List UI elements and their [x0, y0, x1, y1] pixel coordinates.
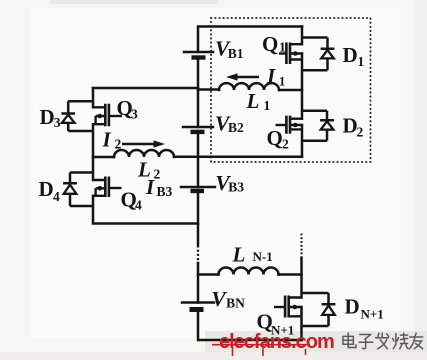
svg-text:I: I: [102, 128, 112, 152]
svg-text:B2: B2: [228, 120, 244, 135]
svg-text:B1: B1: [228, 46, 244, 61]
svg-text:3: 3: [131, 107, 138, 122]
svg-text:2: 2: [154, 167, 161, 182]
svg-text:Q: Q: [262, 32, 278, 56]
svg-text:2: 2: [115, 137, 122, 152]
svg-text:V: V: [211, 287, 227, 311]
svg-text:N-1: N-1: [253, 249, 273, 264]
svg-text:1: 1: [279, 40, 286, 55]
svg-text:L: L: [232, 243, 246, 267]
svg-text:I: I: [145, 175, 155, 199]
svg-text:4: 4: [135, 198, 142, 213]
svg-text:L: L: [246, 89, 260, 113]
svg-text:B3: B3: [228, 180, 244, 195]
svg-text:1: 1: [264, 98, 271, 113]
svg-text:2: 2: [357, 125, 364, 140]
svg-text:1: 1: [279, 75, 285, 89]
svg-text:D: D: [39, 177, 54, 201]
svg-text:N+1: N+1: [361, 307, 384, 322]
svg-text:D: D: [343, 43, 358, 67]
svg-text:I: I: [266, 64, 276, 88]
svg-text:1: 1: [358, 54, 365, 69]
svg-text:Q: Q: [267, 126, 283, 150]
svg-text:BN: BN: [226, 296, 245, 311]
svg-text:D: D: [343, 114, 358, 138]
svg-text:4: 4: [53, 189, 60, 204]
svg-text:2: 2: [282, 137, 289, 152]
svg-text:3: 3: [54, 115, 61, 130]
svg-text:B3: B3: [157, 184, 173, 199]
svg-text:D: D: [345, 295, 360, 319]
svg-text:elecfans.com: elecfans.com: [219, 331, 334, 353]
svg-text:D: D: [40, 105, 55, 129]
